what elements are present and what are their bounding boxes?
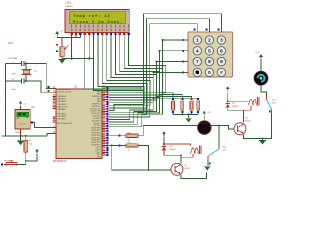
- svg-text:LM016L: LM016L: [66, 6, 74, 8]
- wire Q2 emitter to ground: [244, 135, 263, 139]
- ground RL2 contact and Q1 emitter: [204, 160, 211, 171]
- microcontroller U1 PIC16F877A: [53, 85, 102, 162]
- svg-text:3: 3: [220, 38, 223, 43]
- wire VOUT to U1 RA pin: [33, 123, 56, 128]
- wire RL1 contact to ground: [262, 113, 272, 139]
- transistor Q1 BC547: [171, 163, 190, 175]
- relay RL2 contact: [208, 145, 227, 165]
- svg-text:#: #: [220, 70, 223, 75]
- wire Q1 emitter to ground: [181, 173, 207, 179]
- relay RL2 coil: [164, 144, 201, 157]
- diode D3 1N4007: [162, 144, 176, 152]
- resistor R6 pull-down: [171, 98, 174, 114]
- svg-text:Press # to Cont.: Press # to Cont.: [73, 20, 123, 25]
- resistor R7 pull-down: [181, 98, 184, 114]
- relay RL1 coil: [228, 97, 259, 110]
- svg-text:RA0/AN0: RA0/AN0: [58, 95, 67, 98]
- resistor R1 10k: [24, 136, 32, 165]
- capacitor C2: [5, 78, 26, 91]
- wire D3 to Q1 collector: [164, 152, 182, 163]
- ground under RV1: [58, 59, 65, 63]
- capacitor C1: [5, 61, 26, 75]
- svg-text:L1: L1: [214, 123, 216, 125]
- svg-text:OSC2/CLKOUT: OSC2/CLKOUT: [58, 92, 73, 94]
- resistor R4 base resistor: [109, 132, 138, 141]
- relay RL1 contact: [267, 96, 277, 113]
- keypad column pins: [193, 28, 221, 31]
- wire LCD E to U1: [94, 35, 143, 91]
- U1 left pin stubs: [53, 87, 56, 134]
- wire OSC2 to U1: [26, 81, 56, 92]
- svg-text:RL1: RL1: [272, 99, 275, 101]
- label CRYSTAL: [8, 57, 18, 60]
- temperature sensor U3 LM35: [15, 104, 35, 136]
- svg-text:LCD1: LCD1: [66, 2, 73, 5]
- power +5V terminal LCD: [55, 30, 63, 35]
- svg-text:1N4007: 1N4007: [232, 106, 238, 108]
- wire bottom ground rail: [2, 135, 47, 137]
- power +12V terminal RL1 driver: [226, 86, 230, 102]
- power +12V terminal fan: [255, 52, 263, 71]
- label LCD1 LM016L: [66, 2, 74, 8]
- crystal X1: [22, 64, 38, 82]
- wire keypad row 1 to U1 and pull-down R6: [109, 39, 185, 127]
- wire keypad column 2 to U1: [109, 19, 209, 115]
- resistor R8 pull-down: [190, 98, 193, 114]
- svg-text:4: 4: [196, 48, 199, 53]
- svg-text:RE0/AN5: RE0/AN5: [58, 112, 67, 115]
- wire keypad column 3 to U1: [109, 14, 221, 112]
- svg-text:RE2/AN7: RE2/AN7: [58, 118, 67, 121]
- U1 right pin stubs and indicators: [102, 85, 109, 156]
- keypad KP1: [188, 32, 233, 77]
- push button RESET: [1, 161, 26, 166]
- svg-text:7: 7: [196, 59, 199, 64]
- ground under resistor bank: [185, 114, 192, 122]
- fan motor: [254, 71, 268, 85]
- svg-text:1N4007: 1N4007: [170, 149, 176, 151]
- lamp L1: [198, 121, 216, 134]
- ground under LM35: [17, 136, 24, 145]
- potentiometer RV1 contrast: [56, 37, 68, 59]
- LCD display LCD1: [65, 10, 129, 33]
- svg-text:10k: 10k: [29, 143, 32, 145]
- wire resistor bank bottom rail: [173, 114, 198, 116]
- wire lamp to relay RL2 contact: [218, 126, 220, 146]
- logic indicators OSC wires: [48, 86, 50, 92]
- svg-text:RE1/AN6: RE1/AN6: [58, 115, 67, 118]
- wire R4 to lamp and Q2 base: [138, 125, 238, 136]
- svg-text:BC547: BC547: [245, 121, 251, 123]
- ground Q2 emitter and RL1 contact: [259, 139, 266, 145]
- svg-text:RA2/AN2: RA2/AN2: [58, 100, 67, 103]
- keypad row pins: [182, 39, 188, 73]
- svg-text:Temp ref: 12: Temp ref: 12: [73, 14, 110, 19]
- LCD pin logic-state indicators: [70, 33, 129, 35]
- wire D1 to Q2 collector: [228, 110, 244, 123]
- svg-text:1: 1: [196, 38, 199, 43]
- svg-text:CRYSTAL: CRYSTAL: [8, 57, 18, 60]
- svg-text:BC547: BC547: [185, 168, 191, 170]
- svg-text:1k: 1k: [128, 149, 130, 151]
- wire R5 and U1 to Q1 base: [112, 145, 175, 171]
- svg-text:RV1: RV1: [9, 43, 14, 45]
- power +5V terminal LM35: [19, 101, 23, 106]
- svg-text:PIC16F877A: PIC16F877A: [53, 160, 67, 163]
- wires LCD D0-D7 to U1: [98, 35, 166, 110]
- wire fan to RL1 contact: [261, 85, 267, 96]
- power +12V terminal lamp: [203, 111, 212, 121]
- transistor Q2 BC547: [234, 118, 251, 135]
- svg-text:RA4/T0CKI: RA4/T0CKI: [58, 105, 69, 108]
- wire LCD ground rail: [62, 35, 94, 59]
- wire keypad row 2 to U1 and pull-down R7: [109, 50, 185, 125]
- svg-text:LM35: LM35: [15, 132, 21, 134]
- wire crystal left rail to ground rail: [5, 63, 27, 136]
- svg-text:RA1/AN1: RA1/AN1: [58, 98, 67, 101]
- svg-text:6: 6: [220, 48, 223, 53]
- svg-text:0: 0: [208, 70, 211, 75]
- resistor R9 pull-down: [197, 98, 200, 114]
- svg-text:9: 9: [220, 59, 223, 64]
- wire keypad column 1 to U1: [109, 24, 197, 117]
- svg-text:RL2: RL2: [223, 147, 226, 149]
- svg-text:+12V: +12V: [255, 52, 260, 54]
- wire VDD VEE feed: [57, 35, 80, 38]
- wire keypad row 4 to U1 and pull-down R9: [109, 71, 198, 119]
- svg-text:2: 2: [208, 38, 211, 43]
- svg-text:8: 8: [208, 59, 211, 64]
- wire keypad row 3 to U1 and pull-down R8: [109, 61, 192, 122]
- svg-text:VOUT: VOUT: [19, 124, 25, 126]
- power +5V terminal near R1: [26, 149, 39, 161]
- label RV1: [9, 43, 14, 45]
- wire OSC1 to U1: [26, 64, 56, 89]
- svg-text:5: 5: [208, 48, 211, 53]
- resistor R5 base resistor: [109, 142, 138, 151]
- diode D1 1N4007: [225, 101, 238, 109]
- wire LCD RS to U1: [85, 35, 141, 89]
- svg-text:RA3/AN3: RA3/AN3: [58, 103, 67, 106]
- svg-text:RA5/AN4: RA5/AN4: [58, 108, 67, 111]
- power +12V terminal RL2 driver: [162, 131, 166, 145]
- svg-text:MCLR/Vpp/THV: MCLR/Vpp/THV: [58, 123, 73, 125]
- wire MCLR riser: [47, 134, 56, 136]
